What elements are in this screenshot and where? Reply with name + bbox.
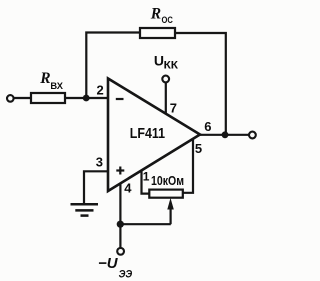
wire Rвх to pin 2 (65, 97, 107, 99)
wire pin 7 (165, 83, 167, 115)
svg-text:7: 7 (170, 101, 177, 116)
wire pin 4 to -Uээ (119, 183, 121, 248)
ground (71, 204, 99, 215)
svg-text:ОС: ОС (162, 15, 174, 26)
potentiometer R1 10кОм (149, 190, 183, 198)
wire pin 1 lead (142, 171, 150, 194)
wire Rос to output node (175, 33, 226, 135)
svg-text:10кОм: 10кОм (151, 174, 184, 188)
svg-text:6: 6 (204, 119, 211, 134)
svg-text:−U: −U (98, 255, 119, 272)
op-amp U1 LF411 triangle (108, 79, 200, 192)
op-amp minus sign (116, 98, 124, 100)
wire output (199, 134, 249, 136)
wiper arrow stem (170, 206, 172, 224)
label Rос (150, 6, 173, 26)
svg-text:R: R (39, 70, 50, 87)
junction node pin2 (83, 95, 90, 102)
junction node output (222, 131, 229, 138)
resistor Rос (140, 28, 175, 38)
wire feedback riser (86, 33, 140, 99)
input terminal (7, 95, 14, 102)
label Rвх (39, 70, 63, 92)
svg-text:U: U (154, 53, 164, 69)
wiper arrowhead (167, 198, 174, 210)
svg-text:5: 5 (195, 141, 202, 156)
wire input to Rвх (13, 97, 31, 99)
output terminal (249, 132, 256, 139)
svg-text:3: 3 (96, 155, 103, 170)
svg-text:LF411: LF411 (130, 125, 165, 142)
svg-text:КК: КК (164, 60, 179, 72)
terminal Uкк (162, 76, 169, 83)
wire wiper to pin4 node (120, 223, 171, 225)
label -Uээ (98, 255, 132, 281)
junction node -Uээ wiper (117, 221, 124, 228)
op-amp plus sign (116, 167, 124, 175)
svg-text:R: R (150, 6, 161, 23)
svg-text:2: 2 (97, 83, 104, 98)
wire pin 3 (84, 171, 107, 203)
svg-text:1: 1 (143, 170, 150, 184)
label Uкк (154, 53, 178, 72)
terminal -Uээ (117, 248, 124, 255)
svg-text:ВХ: ВХ (50, 81, 63, 92)
svg-text:ЭЭ: ЭЭ (119, 269, 133, 281)
svg-text:4: 4 (124, 181, 132, 196)
wire pin 5 lead (183, 139, 193, 193)
resistor Rвх (31, 93, 65, 103)
